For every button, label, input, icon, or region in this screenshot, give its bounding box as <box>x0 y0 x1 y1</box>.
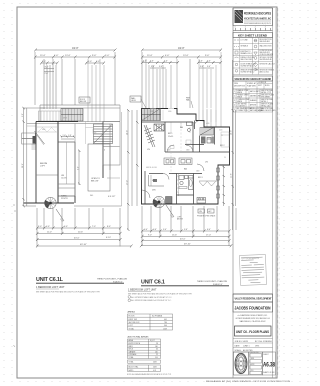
svg-text:BELOW: BELOW <box>91 181 98 183</box>
areas table <box>128 314 173 330</box>
svg-text:SHEET: SHEET <box>263 354 268 356</box>
svg-text:3: 3 <box>265 27 266 29</box>
left plan main top wall <box>27 122 120 127</box>
left plan lower wall stub <box>74 205 122 207</box>
svg-text:THIRD FLOOR UNIT - PLAN 22B: THIRD FLOOR UNIT - PLAN 22B <box>97 278 128 281</box>
key sheet legend header <box>233 33 273 38</box>
left plan main outline <box>24 122 104 204</box>
svg-text:4'-0": 4'-0" <box>96 61 100 63</box>
client address lines <box>236 314 271 323</box>
right plan bottom dim row4 (overall) <box>140 244 232 248</box>
left plan upper open band <box>40 105 120 121</box>
svg-text:THIRD FLOOR UNIT - PLAN 22B: THIRD FLOOR UNIT - PLAN 22B <box>197 280 228 283</box>
svg-text:SAN DIEGO, CA 92101-3542: SAN DIEGO, CA 92101-3542 <box>240 320 266 323</box>
left plan left strip <box>22 108 45 206</box>
released note below border <box>206 380 291 383</box>
svg-text:5'-0": 5'-0" <box>105 55 110 57</box>
svg-text:1: 1 <box>234 91 235 93</box>
svg-text:3'-0": 3'-0" <box>164 61 168 63</box>
svg-text:JACOBS FOUNDATION: JACOBS FOUNDATION <box>235 306 271 311</box>
right plan laundry dark box <box>154 124 164 131</box>
svg-text:UNIT: UNIT <box>258 85 262 87</box>
svg-text:4040: 4040 <box>42 129 46 131</box>
note under tables <box>127 373 172 376</box>
right plan bottom extension verticals <box>142 206 236 246</box>
left plan open-below room <box>88 144 110 191</box>
right plan stair down diagonals <box>144 125 155 147</box>
svg-text:14'-6": 14'-6" <box>231 130 233 135</box>
sheet paper <box>17 7 277 378</box>
additional areas heading <box>128 336 149 339</box>
svg-text:0: 0 <box>235 27 236 29</box>
title block column edges <box>233 8 276 378</box>
left plan interior vertical dim <box>78 150 81 186</box>
svg-text:49'-10": 49'-10" <box>80 244 87 246</box>
svg-text:COMMON OPEN: COMMON OPEN <box>237 99 250 101</box>
svg-text:3'-6": 3'-6" <box>150 61 154 63</box>
left margin registration marks <box>13 205 16 347</box>
right plan bathroom lower fixtures <box>177 176 194 196</box>
svg-text:43'-0": 43'-0" <box>180 239 186 241</box>
svg-text:5'-0": 5'-0" <box>22 113 24 117</box>
left plan third dimension row <box>40 61 105 65</box>
svg-text:BY: R.A. JONES: BY: R.A. JONES <box>255 340 270 343</box>
seal box <box>234 352 249 375</box>
left plan fourth small dims <box>44 67 54 76</box>
right plan BR2 bed outline <box>221 132 229 147</box>
right plan right wall windows <box>217 168 220 198</box>
right plan extension verticals left cluster <box>146 59 177 108</box>
scale ruler ticks <box>233 27 273 31</box>
right plan outer walls <box>142 109 230 205</box>
left plan leader diagonal <box>56 209 64 223</box>
svg-text:4'-6": 4'-6" <box>54 55 59 57</box>
svg-text:3'-0": 3'-0" <box>200 66 204 68</box>
svg-text:4'-6": 4'-6" <box>46 226 50 228</box>
svg-text:ALL EXTERIOR WALLS ARE 2x6 STU: ALL EXTERIOR WALLS ARE 2x6 STUDS AT 16" … <box>131 296 172 299</box>
svg-text:12x11: 12x11 <box>168 136 174 138</box>
right plan note 2 <box>186 98 193 109</box>
svg-text:CONNECTION: CONNECTION <box>237 110 249 112</box>
svg-text:1'-6": 1'-6" <box>63 135 67 137</box>
key sheet legend table <box>233 38 275 75</box>
svg-text:15'-6": 15'-6" <box>40 55 46 57</box>
checklist table rows <box>233 89 276 112</box>
svg-text:1'-6": 1'-6" <box>68 135 72 137</box>
svg-text:THIS SHEET: THIS SHEET <box>261 97 270 99</box>
job data rows <box>233 339 273 353</box>
svg-text:FINISH CONTOUR: FINISH CONTOUR <box>241 57 256 59</box>
svg-text:2668: 2668 <box>186 150 190 152</box>
svg-text:344: 344 <box>164 325 167 327</box>
san marcos checklist legend header <box>233 76 273 81</box>
additional areas table <box>128 339 161 359</box>
svg-text:11'-0": 11'-0" <box>47 231 52 233</box>
svg-text:UNIT ENTRY: UNIT ENTRY <box>237 104 247 106</box>
svg-text:4: 4 <box>234 105 235 107</box>
svg-text:4'-0": 4'-0" <box>88 61 92 63</box>
svg-text:SHEET 2 OF 203: SHEET 2 OF 203 <box>263 372 274 374</box>
left plan extension verticals cluster B (dashed) <box>88 59 104 122</box>
svg-text:4'-6": 4'-6" <box>165 55 170 57</box>
svg-text:DESCRIPTION: DESCRIPTION <box>234 86 246 88</box>
svg-text:REVISIONS: REVISIONS <box>250 352 258 354</box>
right plan room labels <box>147 126 225 192</box>
right plan extension verticals right cluster (dashed) <box>199 52 221 127</box>
svg-text:UNIT C6 - FLOOR PLANS: UNIT C6 - FLOOR PLANS <box>236 330 270 334</box>
svg-text:2083: 2083 <box>153 361 157 363</box>
left plan right side dim text <box>107 178 120 198</box>
svg-text:49'-10": 49'-10" <box>184 244 191 246</box>
svg-text:RELEASED AT (10) UNID REVIEW -: RELEASED AT (10) UNID REVIEW - NOT FOR C… <box>206 380 291 383</box>
svg-text:13'-6": 13'-6" <box>65 55 71 57</box>
svg-text:17'-0": 17'-0" <box>127 180 129 185</box>
svg-text:1: 1 <box>245 27 246 29</box>
svg-text:EXISTING TO: EXISTING TO <box>241 51 252 53</box>
svg-text:UNIT C6.1L: UNIT C6.1L <box>36 277 64 283</box>
svg-text:SEE SHEET A6.35 FOR FIRST AND: SEE SHEET A6.35 FOR FIRST AND SECOND FLO… <box>128 293 193 296</box>
right plan spiral stair <box>153 196 165 208</box>
svg-text:3'-0": 3'-0" <box>143 61 147 63</box>
svg-text:DATE:: DATE: <box>235 345 241 348</box>
left plan second dimension row <box>34 55 116 59</box>
right plan stair2 hatch upper middle-right <box>200 128 214 136</box>
right plan misc tiny tags <box>146 111 226 173</box>
client name <box>233 302 273 312</box>
svg-text:LOT LINE: LOT LINE <box>241 40 248 42</box>
left plan bottom dim row1 <box>36 226 122 230</box>
svg-text:43'-0": 43'-0" <box>178 46 185 50</box>
svg-text:BLDG: BLDG <box>265 85 270 87</box>
left plan bottom dim row3 <box>36 237 122 241</box>
svg-text:2: 2 <box>255 27 256 29</box>
svg-text:DECK: DECK <box>63 118 67 120</box>
svg-text:11'-6": 11'-6" <box>231 173 233 178</box>
svg-text:SAN MARCOS CHECKLIST LEGEND: SAN MARCOS CHECKLIST LEGEND <box>235 77 272 81</box>
svg-text:7'-0": 7'-0" <box>92 226 96 228</box>
architect logo box <box>233 8 273 26</box>
svg-text:BLDG SECTION: BLDG SECTION <box>260 39 273 41</box>
right plan kitchen counter <box>149 175 165 186</box>
revision boxes column <box>249 352 263 375</box>
right plan edge extensions <box>142 52 190 108</box>
svg-text:4'-6": 4'-6" <box>153 229 157 231</box>
svg-text:SQ FT: SQ FT <box>150 340 155 342</box>
svg-text:1995: 1995 <box>255 346 259 348</box>
project name header <box>233 294 273 302</box>
totals table <box>128 360 161 363</box>
svg-text:9'-0": 9'-0" <box>78 166 80 170</box>
right plan note box W.H. <box>130 96 146 108</box>
left plan stair hatch dark <box>61 109 83 122</box>
svg-text:8'-6": 8'-6" <box>107 226 111 228</box>
svg-text:ABOVE: ABOVE <box>177 218 184 221</box>
svg-text:2668: 2668 <box>167 150 171 152</box>
svg-text:6'-0": 6'-0" <box>207 229 211 231</box>
left plan small dims 18/18 <box>61 135 75 139</box>
left plan deck light rails <box>39 111 62 121</box>
left plan extension verticals cluster A <box>44 59 56 109</box>
left plan note box <box>79 97 90 103</box>
svg-text:1 BEDROOM LOFT UNIT: 1 BEDROOM LOFT UNIT <box>36 286 65 289</box>
svg-text:2668: 2668 <box>196 171 200 173</box>
svg-text:6'-10": 6'-10" <box>106 237 111 239</box>
right plan title <box>128 280 229 303</box>
svg-text:0.74: 0.74 <box>153 370 156 372</box>
left plan room labels <box>40 163 100 200</box>
right plan third dimension row <box>141 61 222 65</box>
svg-text:2'-6": 2'-6" <box>45 73 49 75</box>
svg-text:3'-0": 3'-0" <box>45 67 49 69</box>
svg-text:FILE: FILE <box>250 370 253 372</box>
svg-text:FIRST FLR: FIRST FLR <box>129 319 138 321</box>
svg-text:AS NOTED: AS NOTED <box>243 349 253 352</box>
svg-text:PLNTR: PLNTR <box>61 198 68 200</box>
svg-text:OF BLDG SHOWN: OF BLDG SHOWN <box>260 54 274 56</box>
svg-text:CLOS: CLOS <box>61 178 67 180</box>
right plan fourth small dims <box>150 66 214 68</box>
left plan bottom extension verticals <box>37 208 120 247</box>
project block top line <box>233 293 273 295</box>
svg-text:FLOOR: FLOOR <box>129 316 136 318</box>
right plan second dimension row <box>141 55 222 59</box>
svg-text:ALL INTERIOR WALLS ARE 2x4 STU: ALL INTERIOR WALLS ARE 2x4 STUDS AT 16" … <box>131 299 172 302</box>
svg-text:DOOR SYMBOL SEE: DOOR SYMBOL SEE <box>241 64 256 66</box>
left plan left vertical dims <box>22 107 25 208</box>
svg-text:15'-6": 15'-6" <box>147 55 153 57</box>
svg-text:3'-0": 3'-0" <box>159 66 163 68</box>
svg-text:5'-6": 5'-6" <box>184 229 188 231</box>
svg-text:4030: 4030 <box>206 123 210 125</box>
svg-text:5030: 5030 <box>150 111 154 113</box>
svg-text:240: 240 <box>155 351 158 353</box>
left plan misc tiny tags <box>42 118 105 198</box>
svg-text:14'-6": 14'-6" <box>127 130 129 135</box>
svg-text:BELOW: BELOW <box>80 101 87 103</box>
svg-text:ITEM: ITEM <box>234 83 238 85</box>
svg-text:6'-6": 6'-6" <box>64 226 68 228</box>
right plan kitchen counter fixtures <box>166 197 206 204</box>
svg-text:20: 20 <box>224 157 226 159</box>
svg-text:SEE CIVIL DWG: SEE CIVIL DWG <box>241 59 254 61</box>
right plan right-side lower dim line <box>223 165 226 206</box>
svg-text:5'-0": 5'-0" <box>163 229 167 231</box>
svg-text:SCALE:: SCALE: <box>235 349 242 352</box>
right plan bottom dim row3 <box>141 239 231 243</box>
svg-text:402 WEST BROADWAY, SUITE 1320,: 402 WEST BROADWAY, SUITE 1320, SAN DIEGO… <box>236 317 271 320</box>
svg-text:160: 160 <box>155 346 158 348</box>
svg-text:AREAS: AREAS <box>128 311 136 314</box>
svg-text:9'-6": 9'-6" <box>205 55 210 57</box>
svg-text:KEY SHEET LEGEND: KEY SHEET LEGEND <box>238 34 268 38</box>
right plan note above dims <box>177 215 216 221</box>
svg-text:441: 441 <box>164 319 167 321</box>
right plan bath fixtures <box>187 122 215 144</box>
left plan spiral stair <box>44 197 56 208</box>
svg-text:4'-0": 4'-0" <box>144 229 148 231</box>
svg-text:5040: 5040 <box>219 130 223 132</box>
svg-text:SECOND FLR: SECOND FLR <box>129 322 141 324</box>
right plan door arcs <box>142 121 204 199</box>
svg-text:RODRIGUEZ ASSOCIATES: RODRIGUEZ ASSOCIATES <box>244 12 271 16</box>
sheet title box <box>235 326 272 336</box>
right plan interior walls <box>145 121 229 205</box>
right plan right vertical dims <box>231 60 236 230</box>
right plan insulated wall hatch <box>177 175 179 193</box>
svg-text:LEG'D: LEG'D <box>131 100 137 102</box>
svg-text:64: 64 <box>156 349 158 351</box>
svg-text:2'-0": 2'-0" <box>38 226 42 228</box>
svg-text:DIN: DIN <box>152 190 156 192</box>
svg-text:3: 3 <box>234 100 235 102</box>
svg-text:TOTAL: TOTAL <box>129 327 134 330</box>
svg-text:SEE SHEET A6.35 FOR FIRST AND: SEE SHEET A6.35 FOR FIRST AND SECOND FLO… <box>36 290 101 293</box>
right plan kitchen cabinet boxes <box>164 158 192 165</box>
svg-text:22: 22 <box>156 354 158 356</box>
svg-text:5: 5 <box>234 109 235 111</box>
left plan bedroom loft walls <box>36 122 58 204</box>
svg-text:3'-0": 3'-0" <box>207 61 211 63</box>
right plan wall under stair1 <box>142 121 194 123</box>
stamp box (rotated) <box>239 255 266 286</box>
right plan LIN box <box>198 209 214 213</box>
right plan top overall dimension 43'-0" <box>141 46 222 52</box>
right plan LIV dashed reference <box>171 122 181 174</box>
svg-text:SQ FT AREA: SQ FT AREA <box>152 315 163 318</box>
svg-text:JOB NO: 94028: JOB NO: 94028 <box>235 341 248 343</box>
unit totals table <box>128 365 161 372</box>
svg-text:UNIT C6.1: UNIT C6.1 <box>141 280 165 286</box>
left plan bottom dim row4 (overall) <box>36 244 133 248</box>
left plan bottom dim row2 <box>36 231 122 235</box>
svg-text:21: 21 <box>221 135 223 137</box>
svg-text:VALLEY RESIDENTIAL DEVELOPMENT: VALLEY RESIDENTIAL DEVELOPMENT <box>235 297 272 301</box>
checklist header row <box>233 81 273 89</box>
svg-text:A6.38: A6.38 <box>263 362 275 369</box>
right plan stair1 hatch top-left <box>142 109 161 121</box>
svg-text:28: 28 <box>156 343 158 345</box>
svg-text:EXTERIOR ELEV: EXTERIOR ELEV <box>260 50 274 52</box>
svg-text:LOFT: LOFT <box>40 166 46 168</box>
right plan left vertical dims <box>127 109 139 231</box>
svg-text:1 BEDROOM LOFT UNIT: 1 BEDROOM LOFT UNIT <box>128 289 157 292</box>
svg-text:2: 2 <box>234 96 235 98</box>
svg-text:6'-8 1/2": 6'-8 1/2" <box>108 196 116 198</box>
left plan middle closet room <box>58 142 75 196</box>
svg-text:28'-6": 28'-6" <box>22 163 24 168</box>
right plan leader diagonal from spiral <box>166 205 174 219</box>
svg-text:514: 514 <box>155 357 158 359</box>
svg-text:ARCHITECTS&PLANNERS, INC: ARCHITECTS&PLANNERS, INC <box>244 17 271 21</box>
right plan reference lines inside plan <box>149 110 216 133</box>
sheet number box A6.38 <box>263 352 276 375</box>
svg-text:3'-6": 3'-6" <box>199 61 203 63</box>
left plan loft closet lines <box>36 127 58 132</box>
svg-text:ADDITIONAL AREAS: ADDITIONAL AREAS <box>128 336 149 339</box>
svg-text:9'-6": 9'-6" <box>92 55 97 57</box>
svg-text:9'-0": 9'-0" <box>148 234 152 236</box>
right plan top wall openings <box>150 108 212 110</box>
svg-text:784: 784 <box>164 322 167 324</box>
sheet right torn edge texture <box>278 8 279 377</box>
left plan right room <box>103 112 122 206</box>
svg-text:6068 SL.GL.DR.: 6068 SL.GL.DR. <box>146 167 158 169</box>
svg-text:REVISION SYMBOL: REVISION SYMBOL <box>260 70 275 72</box>
left plan interior lines <box>75 124 110 197</box>
svg-text:ENTRY PORCH: ENTRY PORCH <box>129 343 141 345</box>
svg-text:20'-6": 20'-6" <box>78 231 83 233</box>
right plan bifold closet doors <box>199 182 216 187</box>
svg-text:3'-0": 3'-0" <box>207 66 211 68</box>
right plan bottom dim row2 <box>141 234 231 238</box>
right plan bottom dim row1 <box>141 229 231 233</box>
svg-text:c/o CHARTERED DEVELOPMENTS, I: c/o CHARTERED DEVELOPMENTS, INC. <box>238 314 268 317</box>
svg-text:17'-0": 17'-0" <box>206 234 211 236</box>
svg-text:JUNE 1: JUNE 1 <box>243 346 250 348</box>
svg-text:LOFT: LOFT <box>129 325 133 327</box>
svg-text:1569: 1569 <box>163 328 167 330</box>
left plan title <box>36 277 128 293</box>
svg-text:INT ELEV OF RM: INT ELEV OF RM <box>260 57 273 59</box>
svg-text:43'-0": 43'-0" <box>74 238 80 240</box>
svg-text:15'-6": 15'-6" <box>172 234 177 236</box>
svg-text:WALL: WALL <box>186 99 191 102</box>
left plan top overall dimension line 43'-0" <box>34 46 117 52</box>
svg-text:43'-0": 43'-0" <box>72 46 79 50</box>
svg-text:PRIVATE OPEN SPACE: PRIVATE OPEN SPACE <box>197 215 216 218</box>
areas table heading <box>128 311 136 314</box>
svg-text:13'-6": 13'-6" <box>183 55 189 57</box>
svg-text:5030: 5030 <box>168 111 172 113</box>
svg-text:2083: 2083 <box>153 367 157 369</box>
left plan edge extension lines <box>35 52 115 105</box>
left plan stair hatch right <box>94 124 113 144</box>
